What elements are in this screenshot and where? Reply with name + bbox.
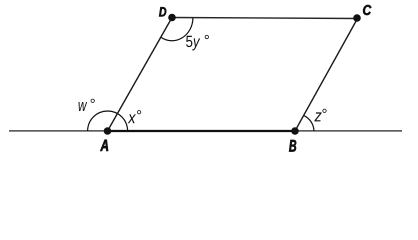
node C (dot) xyxy=(353,14,361,22)
label w degrees xyxy=(79,102,88,111)
wire: side DC xyxy=(172,18,358,19)
label A xyxy=(100,140,108,151)
label 5y degrees xyxy=(186,36,200,51)
angle arc at B (z) xyxy=(304,115,314,131)
angle arc at D (5y) xyxy=(161,18,193,41)
label D xyxy=(159,7,166,16)
label x degrees xyxy=(128,114,136,123)
label B xyxy=(289,140,296,152)
label z degrees xyxy=(314,112,321,121)
angle arc at A (w and x semicircle) xyxy=(88,111,128,131)
node D (dot) xyxy=(168,14,176,22)
label C xyxy=(363,5,371,15)
wire: side BC xyxy=(295,19,358,132)
node A (dot) xyxy=(104,127,112,135)
wire: side AB (thick segment of parallelogram) xyxy=(108,130,296,132)
node B (dot) xyxy=(291,127,299,135)
wire: side AD xyxy=(108,18,173,132)
wire: horizontal line through A and B (extended line) xyxy=(9,130,402,132)
